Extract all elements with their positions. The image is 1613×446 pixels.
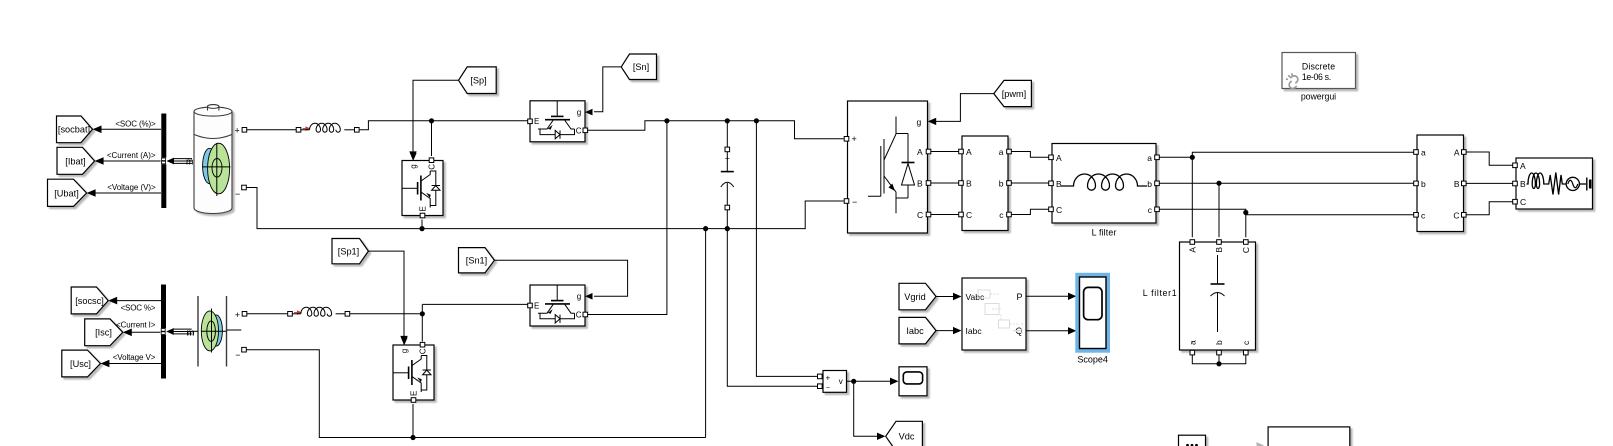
svg-text:[Ibat]: [Ibat] xyxy=(65,156,85,166)
svg-text:B: B xyxy=(1056,179,1062,189)
wire inductor to top bus xyxy=(359,121,528,130)
goto tag [Isc] xyxy=(85,319,123,346)
svg-text:B: B xyxy=(966,179,972,189)
wire IGBT3 E to lower bus xyxy=(412,404,414,438)
svg-text:C: C xyxy=(1520,197,1526,207)
svg-text:[Sn1]: [Sn1] xyxy=(466,256,487,266)
battery cap xyxy=(208,105,219,111)
svg-text:A: A xyxy=(917,147,923,157)
phase b wire xyxy=(1159,182,1414,184)
wire IGBT4 C to DC+ bus xyxy=(587,121,667,315)
svg-text:−: − xyxy=(235,189,240,199)
svg-text:<SOC (%)>: <SOC (%)> xyxy=(115,120,156,129)
svg-text:b: b xyxy=(1147,179,1152,189)
junction DC+ at IGBT4 riser xyxy=(664,118,669,123)
svg-text:A: A xyxy=(1188,247,1198,253)
svg-text:a: a xyxy=(1147,153,1152,163)
svg-text:+: + xyxy=(852,134,857,144)
phase c wire xyxy=(1159,209,1414,215)
goto tag [socbat] xyxy=(57,116,93,143)
goto tag [Vdc] xyxy=(886,421,923,446)
bus selector bar (supercap) xyxy=(161,285,166,379)
svg-text:C: C xyxy=(1453,210,1459,220)
wire IGBT1 E to bottom bus xyxy=(421,220,423,229)
phase a wire xyxy=(1159,152,1414,157)
svg-text:[Usc]: [Usc] xyxy=(70,359,91,369)
svg-text:<Current I>: <Current I> xyxy=(116,320,156,329)
svg-text:L filter1: L filter1 xyxy=(1143,288,1177,298)
L filter1 bottom common bus xyxy=(1192,355,1246,364)
scope (DC voltage) xyxy=(899,367,927,396)
goto tag [Ibat] xyxy=(57,147,95,174)
supercap electrode line xyxy=(227,329,242,331)
From tag [pwm] xyxy=(994,80,1032,106)
L filter coil icon xyxy=(1061,174,1147,190)
svg-text:+: + xyxy=(235,310,240,320)
wire Sn1 to IGBT4 gate xyxy=(494,260,627,296)
wire SOC% xyxy=(117,300,162,302)
From tag Iabc xyxy=(899,317,936,344)
wire riser to IGBT4 E xyxy=(422,303,527,305)
svg-text:[Isc]: [Isc] xyxy=(95,328,112,338)
svg-text:v: v xyxy=(839,377,843,386)
svg-text:g: g xyxy=(917,117,922,127)
svg-text:−: − xyxy=(852,197,857,207)
PQ faint internal icon xyxy=(978,290,1024,333)
wire supercap+ to inductor xyxy=(247,313,288,315)
wire SOC(%) xyxy=(101,128,161,130)
svg-text:m: m xyxy=(187,327,195,337)
L filter1 capacitor icon xyxy=(1217,255,1219,284)
svg-text:C: C xyxy=(917,210,923,220)
wire IGBT2 C to DC+ bus xyxy=(587,121,843,139)
svg-text:A: A xyxy=(1056,153,1062,163)
svg-text:[pwm]: [pwm] xyxy=(1002,89,1027,99)
riser DC+ to voltmeter + xyxy=(756,121,817,377)
svg-text:Vdc: Vdc xyxy=(899,432,915,442)
svg-text:powergui: powergui xyxy=(1301,91,1336,101)
PQ block xyxy=(962,278,1026,350)
wire Sp to IGBT1 gate xyxy=(413,80,459,152)
svg-text:−: − xyxy=(235,350,240,360)
goto tag [Ubat] xyxy=(48,179,87,206)
wire Current(A) xyxy=(103,160,161,162)
wires measurement2 to source xyxy=(1466,152,1513,165)
svg-text:B: B xyxy=(1520,179,1526,189)
wires inverter to measurement1 xyxy=(931,152,959,215)
svg-text:P: P xyxy=(1016,292,1022,302)
goto tag [Usc] xyxy=(62,350,101,377)
taps down to L filter1 xyxy=(1192,157,1246,237)
bus signal m (supercap) xyxy=(166,328,174,335)
battery label curve xyxy=(194,135,232,139)
svg-text:b: b xyxy=(999,179,1004,189)
supercap logo xyxy=(210,315,222,346)
wire Voltage(V) xyxy=(95,192,161,194)
svg-text:<Voltage (V)>: <Voltage (V)> xyxy=(107,183,156,192)
From tag Vgrid xyxy=(899,283,936,310)
svg-text:[Sp]: [Sp] xyxy=(470,76,486,86)
svg-text:b: b xyxy=(1421,179,1426,189)
wires PQ to Scope4 xyxy=(1026,295,1068,297)
riser capacitor bottom to voltmeter - xyxy=(727,229,817,387)
wire to Vdc goto xyxy=(854,381,878,436)
bus signal m (battery) xyxy=(167,158,175,165)
svg-text:<SOC %>: <SOC %> xyxy=(121,303,156,312)
svg-text:Iabc: Iabc xyxy=(906,326,924,336)
wire inductor to IGBT3/IGBT4 riser xyxy=(350,313,423,315)
svg-text:Iabc: Iabc xyxy=(966,326,983,336)
svg-text:A: A xyxy=(966,147,972,157)
svg-text:1e-06 s.: 1e-06 s. xyxy=(1302,72,1331,82)
inverter igbt icon xyxy=(868,139,884,196)
Scope4 (selected) xyxy=(1075,273,1110,353)
svg-text:L filter: L filter xyxy=(1092,227,1117,237)
svg-text:[Sp1]: [Sp1] xyxy=(338,246,359,256)
svg-text:a: a xyxy=(999,147,1004,157)
wires measurement1 to L filter xyxy=(1011,152,1048,158)
wire voltmeter out xyxy=(847,380,891,382)
wire IGBT1 C to top bus xyxy=(431,121,433,156)
goto tag [socsc] xyxy=(71,287,108,314)
junction DC+ at voltmeter riser xyxy=(754,118,759,123)
svg-text:C: C xyxy=(966,210,972,220)
svg-text:a: a xyxy=(1188,340,1198,345)
svg-text:[socsc]: [socsc] xyxy=(75,296,104,306)
svg-text:[socbat]: [socbat] xyxy=(58,125,90,135)
source icon: coil, resistor, sine, ground xyxy=(1527,173,1546,189)
svg-text:−: − xyxy=(826,385,830,392)
svg-text:<Voltage V>: <Voltage V> xyxy=(113,353,156,362)
svg-text:B: B xyxy=(1214,247,1224,253)
svg-text:B: B xyxy=(917,179,923,189)
svg-text:m: m xyxy=(186,157,194,167)
svg-text:B: B xyxy=(1454,179,1460,189)
svg-text:A: A xyxy=(1454,148,1460,158)
svg-text:A: A xyxy=(1520,161,1526,171)
wires into PQ block xyxy=(936,296,953,298)
svg-text:+: + xyxy=(235,125,240,135)
svg-text:Vgrid: Vgrid xyxy=(904,292,925,302)
svg-text:[Ubat]: [Ubat] xyxy=(54,188,79,198)
svg-text:Discrete: Discrete xyxy=(1302,61,1335,71)
svg-text:C: C xyxy=(1056,205,1062,215)
bus selector bar (battery) xyxy=(161,114,166,209)
svg-text:+: + xyxy=(725,153,730,163)
svg-text:<Current (A)>: <Current (A)> xyxy=(107,151,156,160)
svg-text:+: + xyxy=(826,373,831,382)
wire Sn to IGBT2 gate xyxy=(594,67,621,112)
svg-text:C: C xyxy=(1241,247,1251,253)
battery logo xyxy=(203,148,217,183)
wire battery+ to inductor xyxy=(247,129,297,131)
svg-text:b: b xyxy=(1214,340,1224,345)
wire Sp1 to IGBT3 gate xyxy=(368,251,404,336)
riser DC- to lower converter bus xyxy=(705,229,707,438)
svg-text:a: a xyxy=(1421,148,1426,158)
wire Voltage V xyxy=(109,363,161,365)
wire Current I xyxy=(131,331,161,333)
wire pwm to inverter g xyxy=(936,94,994,122)
svg-text:Scope4: Scope4 xyxy=(1077,354,1108,364)
junction DC+ at capacitor xyxy=(725,118,730,123)
svg-text:Vabc: Vabc xyxy=(966,292,985,302)
svg-text:[Sn]: [Sn] xyxy=(633,62,649,72)
